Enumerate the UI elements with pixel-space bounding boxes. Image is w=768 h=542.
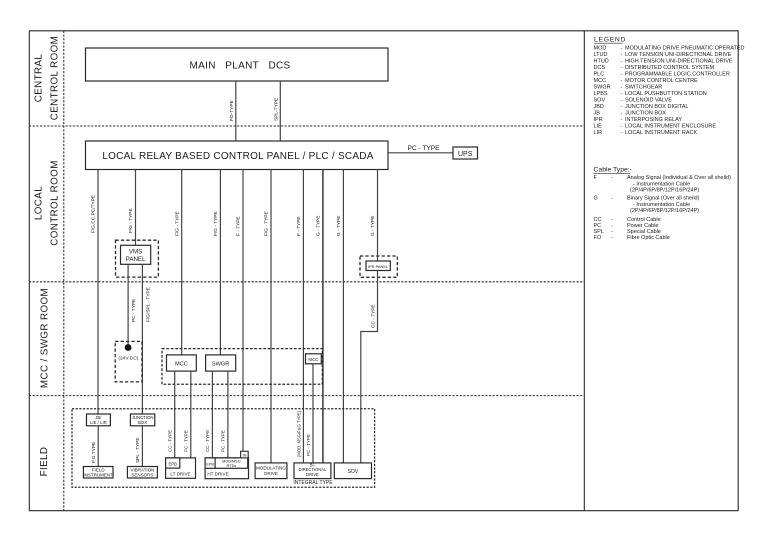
svg-text:F,G TYPE: F,G TYPE (91, 442, 97, 463)
svg-text:- Instrumentation Cable: - Instrumentation Cable (633, 181, 690, 187)
svg-text:DCS: DCS (594, 65, 606, 71)
wire PC-TYPE MCC to LT DRIVE (183, 371, 190, 458)
svg-text:F/G - TYPE: F/G - TYPE (174, 211, 180, 236)
box LOCAL RELAY BASED CONTROL PANEL / PLC / SCADA (86, 141, 389, 170)
wire PC-TYPE VMS to 24V DC (128, 264, 137, 345)
box LT DRIVE (166, 458, 196, 478)
svg-text:PROGRAMMABLE LOGIC CONTROLLER: PROGRAMMABLE LOGIC CONTROLLER (625, 72, 730, 78)
svg-text:LT DRIVE: LT DRIVE (170, 471, 190, 476)
svg-text:FO-TYPE: FO-TYPE (229, 100, 235, 121)
wire PC-TYPE panel to UPS (388, 145, 453, 153)
svg-text:CENTRAL: CENTRAL (34, 54, 45, 103)
svg-text:-: - (611, 196, 613, 202)
svg-text:-: - (611, 223, 613, 229)
svg-text:LEGEND: LEGEND (594, 37, 626, 44)
svg-text:DRIVE: DRIVE (264, 471, 278, 476)
svg-text:-: - (621, 130, 623, 136)
svg-text:CENTROL ROOM: CENTROL ROOM (50, 36, 61, 120)
svg-text:-: - (621, 78, 623, 84)
wire SPL-TYPE DCS to panel (273, 81, 280, 141)
svg-text:LPBS: LPBS (594, 91, 608, 97)
svg-text:JBD: JBD (594, 104, 604, 110)
svg-text:G: G (594, 196, 598, 202)
svg-text:CC - TYPE: CC - TYPE (167, 430, 172, 452)
svg-text:F - TYPE: F - TYPE (296, 216, 302, 236)
box JB/LIE/LIR (87, 414, 111, 426)
svg-text:G - TYPE: G - TYPE (370, 216, 376, 236)
cable type entries (594, 175, 732, 241)
svg-text:HTUD: HTUD (594, 59, 609, 65)
svg-text:G - TYPE: G - TYPE (336, 216, 342, 236)
box FIELD INSTRUMENT (83, 467, 113, 479)
svg-text:Cable Type:-: Cable Type:- (594, 167, 632, 174)
svg-text:-: - (621, 72, 623, 78)
svg-text:MODULATING DRIVE PNEUMATIC OPE: MODULATING DRIVE PNEUMATIC OPERATED (625, 46, 745, 52)
svg-text:MOTOR CONTROL CENTRE: MOTOR CONTROL CENTRE (625, 78, 698, 84)
svg-text:Binary Signal (Over all sheil: Binary Signal (Over all sheild) (627, 196, 700, 202)
svg-text:- Instrumentation Cable: - Instrumentation Cable (633, 202, 690, 208)
svg-text:LTUD: LTUD (594, 52, 608, 58)
VMS PANEL dashed enclosure (116, 240, 159, 277)
wire F/G/SPL-TYPE VMS to JUNCTION BOX (142, 264, 151, 414)
svg-text:LOW TENSION UNI-DIRECTIONAL DR: LOW TENSION UNI-DIRECTIONAL DRIVE (625, 52, 732, 58)
svg-text:LOCAL INSTRUMENT ENCLOSURE: LOCAL INSTRUMENT ENCLOSURE (625, 124, 716, 130)
svg-text:JUNCTION BOX: JUNCTION BOX (625, 111, 666, 117)
room divider CCR/LCR (29, 125, 584, 127)
wire 2 panel to VMS PANEL (128, 170, 135, 246)
svg-text:LIE / LIR: LIE / LIR (90, 420, 107, 425)
svg-text:EPB: EPB (169, 461, 178, 466)
svg-text:-: - (621, 117, 623, 123)
box MCC small (306, 354, 322, 364)
svg-text:JB: JB (594, 111, 601, 117)
svg-text:Analog Signal (Individual & O: Analog Signal (Individual & Over all she… (627, 175, 731, 181)
svg-text:-: - (621, 52, 623, 58)
svg-text:G - TYPE: G - TYPE (316, 216, 322, 236)
svg-text:MCC: MCC (594, 78, 607, 84)
room label LOCAL CONTROL ROOM (34, 160, 61, 246)
box VIBRATION SENSORS (127, 467, 157, 479)
svg-text:PC - TYPE: PC - TYPE (221, 430, 226, 452)
svg-text:Control Cable: Control Cable (627, 217, 661, 223)
svg-text:LIE: LIE (594, 124, 603, 130)
svg-text:DISTRIBUTED CONTROL SYSTEM: DISTRIBUTED CONTROL SYSTEM (625, 65, 714, 71)
svg-text:-: - (621, 124, 623, 130)
svg-text:SWGR: SWGR (212, 361, 229, 367)
svg-text:F - TYPE: F - TYPE (236, 216, 242, 236)
svg-text:IPR: IPR (594, 117, 603, 123)
svg-text:HT DRIVE: HT DRIVE (207, 472, 228, 477)
wire F,G TYPE JB to FIELD INSTRUMENT (91, 426, 98, 467)
svg-text:LOCAL PUSHBUTTON STATION: LOCAL PUSHBUTTON STATION (625, 91, 707, 97)
box VMS PANEL (121, 245, 151, 264)
wire MCC small to BI-DIRECTIONAL DRIVE (306, 364, 313, 463)
svg-text:Special Cable: Special Cable (627, 229, 661, 235)
svg-text:SOLENOID VALVE: SOLENOID VALVE (625, 98, 672, 104)
svg-text:LOCAL: LOCAL (34, 186, 45, 220)
box IPR PANEL (366, 261, 390, 271)
svg-text:INTERPOSING RELAY: INTERPOSING RELAY (625, 117, 682, 123)
svg-text:MOD: MOD (594, 46, 607, 52)
svg-text:MAIN PLANT DCS: MAIN PLANT DCS (190, 61, 291, 72)
svg-text:IPR PANEL: IPR PANEL (368, 264, 389, 269)
svg-text:HIGH TENSION UNI-DIRECTIONAL D: HIGH TENSION UNI-DIRECTIONAL DRIVE (625, 59, 733, 65)
svg-text:F/G - TYPE: F/G - TYPE (264, 211, 270, 236)
box HT DRIVE (205, 458, 248, 479)
svg-text:F/G - TYPE: F/G - TYPE (128, 208, 134, 233)
svg-text:F: F (594, 175, 598, 181)
svg-text:PC: PC (594, 223, 602, 229)
svg-text:(2P/4P/6P/8P/12P/16P/24P): (2P/4P/6P/8P/12P/16P/24P) (630, 188, 699, 194)
room divider MCC/FIELD (29, 395, 584, 397)
svg-text:LOCAL INSTRUMENT RACK: LOCAL INSTRUMENT RACK (625, 130, 697, 136)
svg-text:EPB: EPB (206, 462, 214, 466)
svg-text:SPL: SPL (594, 229, 604, 235)
svg-text:-: - (621, 104, 623, 110)
svg-text:MODULATING: MODULATING (256, 466, 286, 471)
box SWGR (206, 355, 236, 371)
svg-text:VMS: VMS (129, 248, 142, 255)
svg-text:-: - (621, 46, 623, 52)
svg-text:INSTRUMENT: INSTRUMENT (83, 473, 113, 478)
svg-text:-: - (621, 59, 623, 65)
svg-text:FO: FO (594, 235, 602, 241)
svg-text:-: - (621, 85, 623, 91)
wire 1 panel to JB/LIE/LIR (91, 170, 98, 415)
box JB small above HT DRIVE (241, 451, 249, 458)
svg-text:-: - (611, 217, 613, 223)
svg-text:PC - TYPE: PC - TYPE (407, 145, 440, 152)
room divider LCR/MCC (29, 281, 584, 283)
IPR PANEL dashed enclosure (360, 256, 397, 277)
box SOV (334, 463, 371, 479)
svg-text:RTDs: RTDs (227, 464, 237, 468)
room label column dashed separator (63, 31, 65, 511)
svg-text:PC - TYPE: PC - TYPE (183, 430, 188, 452)
svg-text:CONTROL ROOM: CONTROL ROOM (50, 160, 61, 246)
svg-text:F/G,CC,PC/TYPE: F/G,CC,PC/TYPE (91, 195, 97, 233)
wire 7 panel to BI-DIRECTIONAL DRIVE (296, 170, 303, 463)
svg-text:SWITCHGEAR: SWITCHGEAR (625, 85, 662, 91)
box MAIN PLANT DCS (86, 48, 389, 81)
box BI-DIRECTIONAL DRIVE (294, 463, 331, 479)
svg-text:-: - (621, 111, 623, 117)
svg-text:SOV: SOV (594, 98, 606, 104)
svg-text:MCC / SWGR ROOM: MCC / SWGR ROOM (40, 288, 51, 388)
wire CC-TYPE MCC to EPB(LT) (167, 371, 174, 458)
wire 9 panel to SOV (336, 170, 343, 463)
wire PC-TYPE SWGR to RTDs (221, 371, 228, 458)
box MODULATING DRIVE (255, 463, 287, 479)
wire 4 panel to SWGR (213, 170, 220, 355)
svg-text:JUNCTION BOX DIGITAL: JUNCTION BOX DIGITAL (625, 104, 688, 110)
svg-text:CC - TYPE: CC - TYPE (370, 304, 376, 328)
svg-text:SOV: SOV (348, 469, 359, 475)
Cable Type title (594, 167, 632, 174)
svg-text:PC - TYPE: PC - TYPE (306, 434, 311, 456)
svg-text:MCC: MCC (308, 357, 318, 362)
svg-text:MOD/MSG: MOD/MSG (222, 460, 241, 464)
svg-text:SPL-TYPE: SPL-TYPE (273, 98, 279, 121)
svg-text:CC: CC (594, 217, 602, 223)
svg-text:-: - (621, 65, 623, 71)
svg-text:PANEL: PANEL (126, 256, 146, 263)
svg-text:INTEGRAL TYPE: INTEGRAL TYPE (293, 480, 333, 486)
svg-text:F/G - TYPE: F/G - TYPE (213, 211, 219, 236)
wire 10 panel to IPR PANEL (370, 170, 377, 262)
wire 5 panel to JB above HT DRIVE (236, 170, 243, 452)
svg-text:(MOD, MSG/F&G TYPE): (MOD, MSG/F&G TYPE) (297, 410, 302, 457)
svg-text:-: - (611, 229, 613, 235)
svg-text:(2P/4P/6P/8P/12P/16P/24P): (2P/4P/6P/8P/12P/16P/24P) (630, 208, 699, 214)
24V DC dashed box (115, 341, 142, 382)
svg-text:PC - TYPE: PC - TYPE (131, 299, 137, 322)
svg-text:SWGR: SWGR (594, 85, 611, 91)
svg-text:UPS: UPS (458, 151, 473, 158)
svg-text:-: - (611, 235, 613, 241)
svg-text:-: - (621, 91, 623, 97)
node 24V DC dot (118, 344, 138, 361)
svg-text:SPL - TYPE: SPL - TYPE (135, 437, 141, 463)
svg-text:MCC: MCC (175, 361, 188, 367)
box JUNCTION BOX (130, 414, 154, 426)
MCC/SWGR dashed enclosure (162, 349, 322, 385)
svg-text:BOX: BOX (138, 420, 147, 425)
svg-text:FIELD: FIELD (39, 447, 50, 477)
wire 3 panel to MCC (174, 170, 181, 355)
svg-text:(24V DC): (24V DC) (118, 356, 138, 362)
svg-text:-: - (611, 175, 613, 181)
room label CENTRAL CENTROL ROOM (34, 36, 61, 120)
wire SPL-TYPE JUNCTION BOX to VIBRATION SENSORS (135, 426, 142, 467)
svg-text:F/G/SPL - TYPE: F/G/SPL - TYPE (145, 287, 151, 322)
svg-text:-: - (621, 98, 623, 104)
wire CC-TYPE IPR PANEL to SOV (361, 271, 378, 463)
LEGEND title (594, 37, 626, 44)
svg-text:PLC: PLC (594, 72, 605, 78)
svg-text:Fibre Optic Cable: Fibre Optic Cable (627, 235, 670, 241)
wire CC-TYPE SWGR to EPB(HT) (205, 371, 212, 458)
svg-text:CC - TYPE: CC - TYPE (205, 430, 210, 452)
svg-text:DRIVE: DRIVE (306, 472, 319, 477)
FIELD dashed enclosure (72, 409, 375, 488)
box UPS (453, 147, 478, 159)
wire 6 panel to MODULATING DRIVE (264, 170, 271, 463)
box MCC (167, 355, 197, 371)
svg-text:LIR: LIR (594, 130, 603, 136)
wire 8 panel to BI-DIRECTIONAL DRIVE (316, 170, 323, 463)
svg-text:JB: JB (242, 453, 247, 457)
svg-text:LOCAL RELAY BASED CONTROL PANE: LOCAL RELAY BASED CONTROL PANEL / PLC / … (102, 151, 373, 162)
wire FO-TYPE DCS to panel (229, 81, 236, 141)
svg-text:SENSORS: SENSORS (131, 473, 153, 478)
legend entries (594, 46, 745, 137)
svg-text:Power Cable: Power Cable (627, 223, 659, 229)
